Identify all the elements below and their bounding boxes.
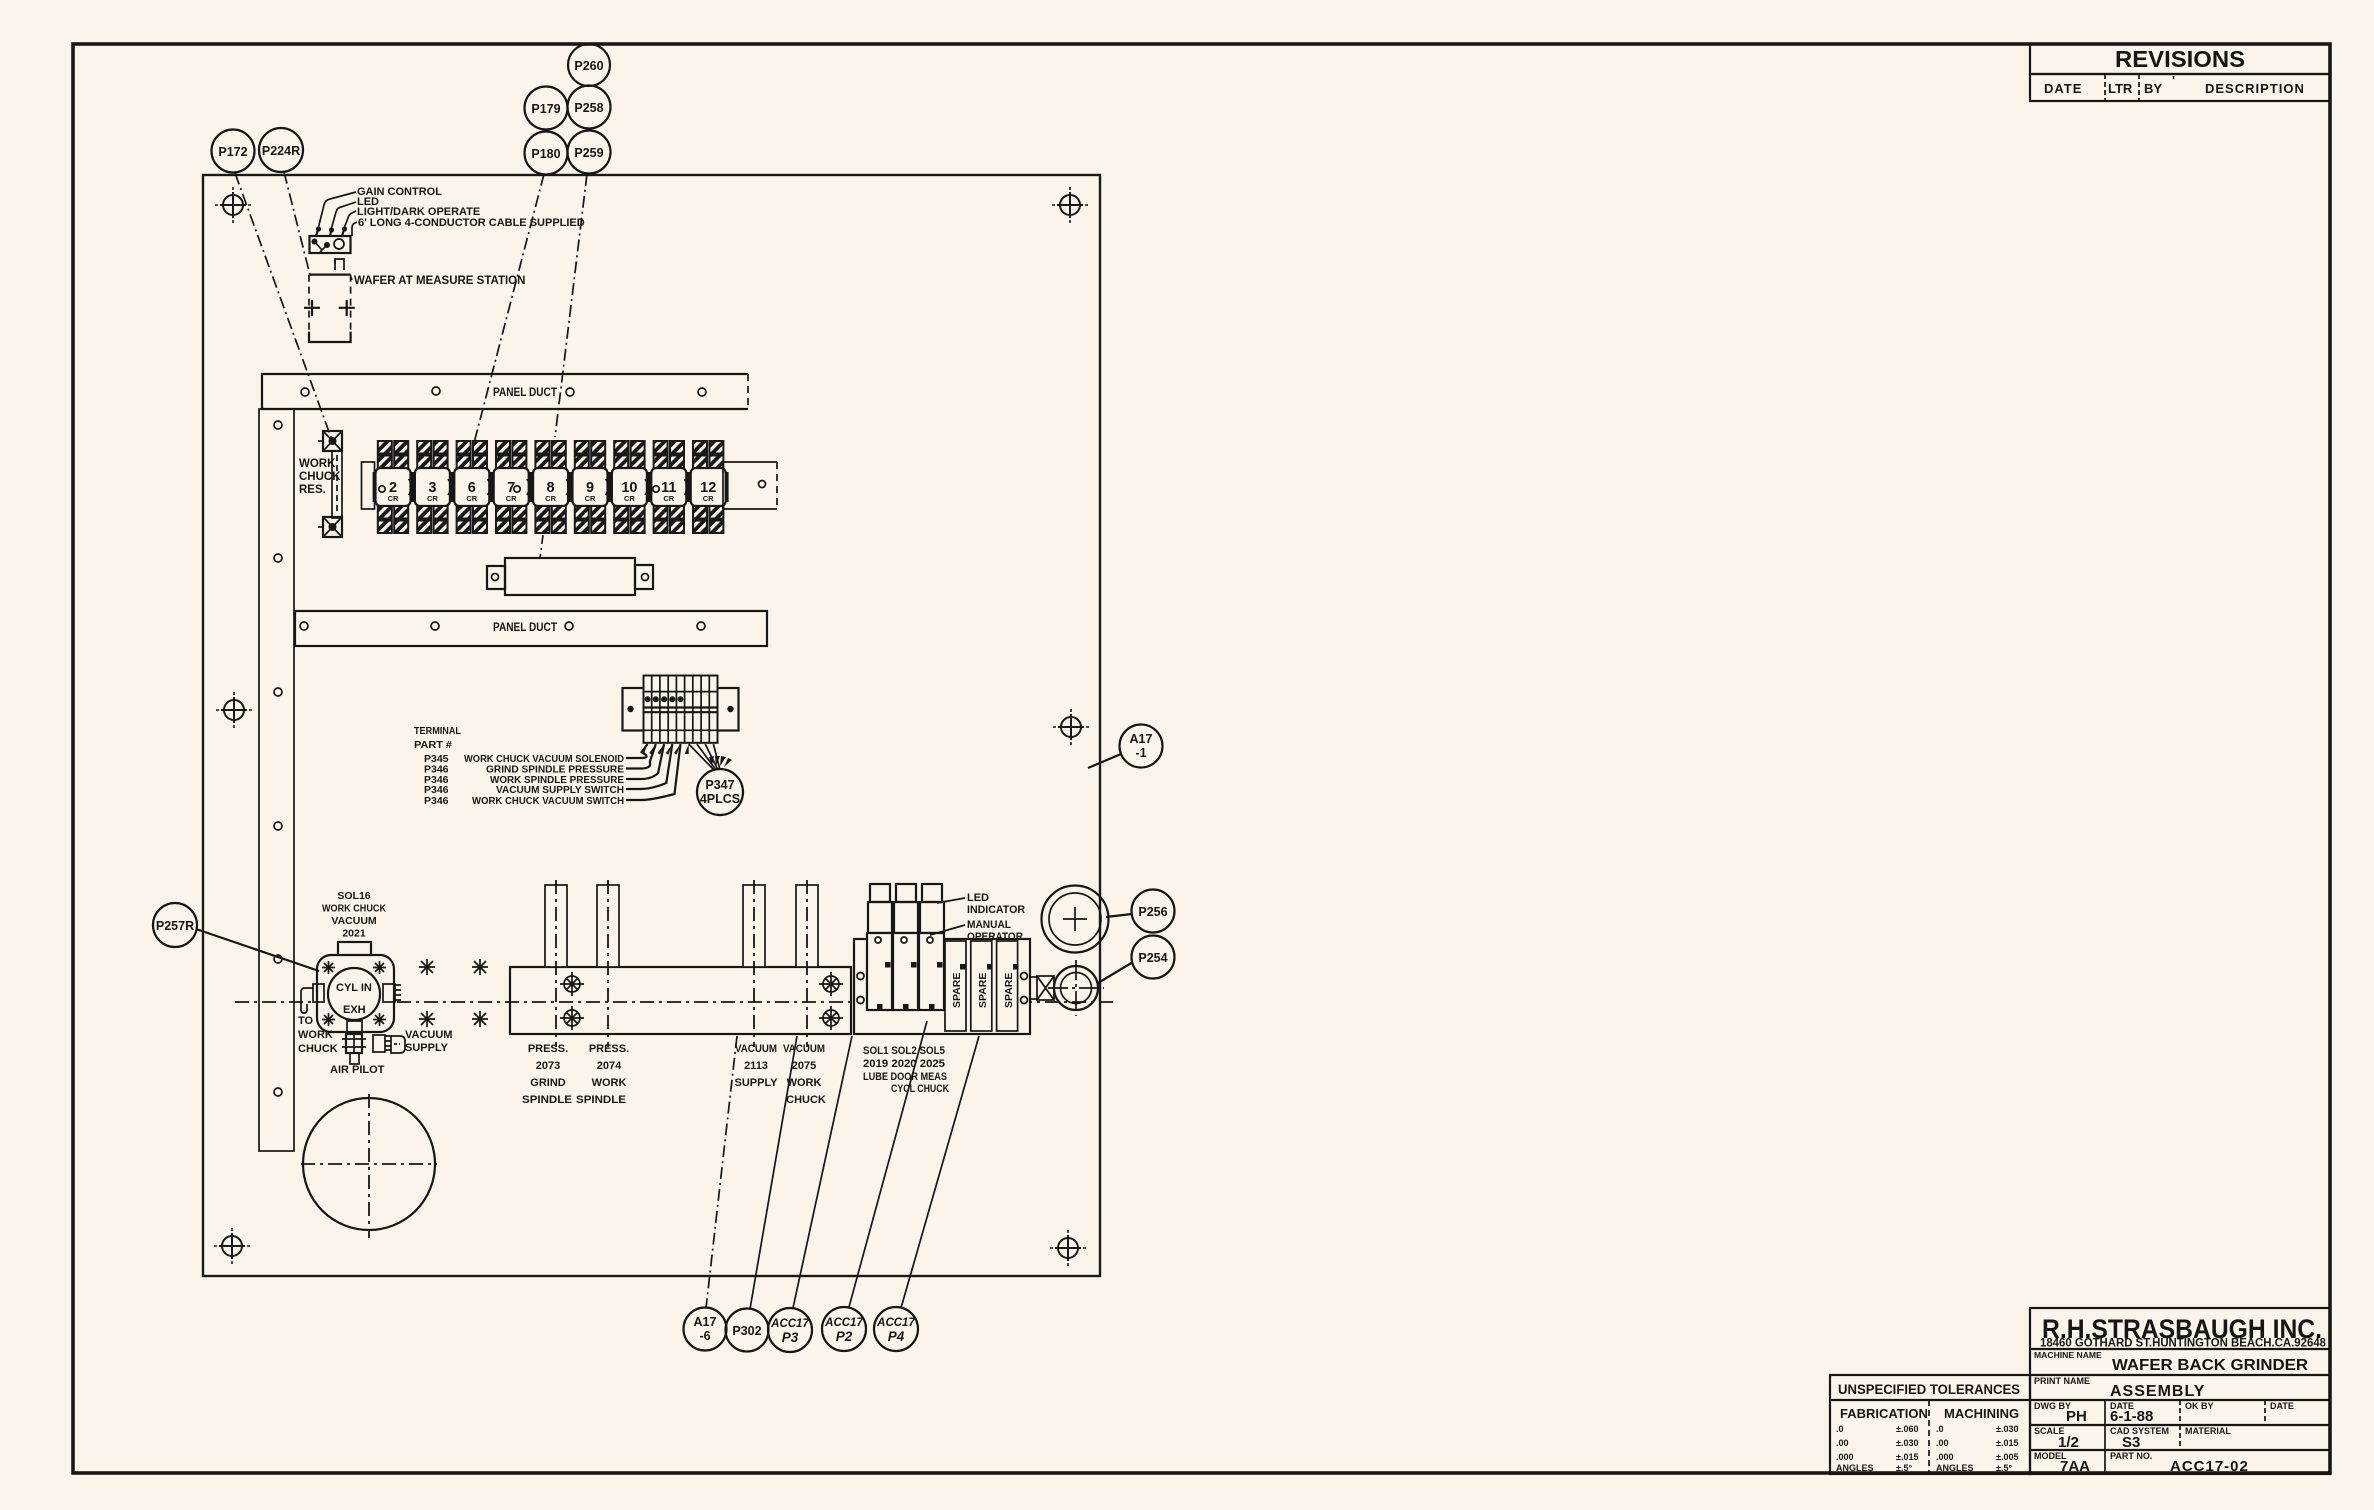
svg-text:SUPPLY: SUPPLY — [405, 1042, 449, 1054]
bus bar body — [505, 558, 635, 595]
wire terminal 4 — [626, 744, 672, 789]
vacuum tube work spindle — [597, 880, 619, 1047]
work chuck res. mounting bracket — [332, 451, 342, 518]
fiducial target bottom-right — [1050, 1230, 1086, 1266]
svg-text:.0: .0 — [1936, 1424, 1944, 1434]
label vacuum supply — [405, 1029, 452, 1054]
manifold screw right top — [819, 972, 843, 996]
svg-text:PRESS.: PRESS. — [589, 1043, 629, 1055]
svg-text:PANEL DUCT: PANEL DUCT — [493, 622, 557, 634]
wire to P347 balloon — [705, 744, 718, 770]
svg-text:ACC17: ACC17 — [876, 1317, 915, 1329]
svg-text:WORK: WORK — [298, 1029, 333, 1041]
bracket pad top — [318, 431, 342, 451]
svg-text:SPARE: SPARE — [951, 973, 963, 1008]
svg-text:OK BY: OK BY — [2185, 1401, 2214, 1411]
callout circle ACC17 P3 — [768, 1308, 812, 1352]
relay connector chevron — [685, 479, 693, 495]
svg-text:CHUCK: CHUCK — [786, 1094, 826, 1106]
svg-text:6-1-88: 6-1-88 — [2110, 1408, 2153, 1425]
svg-text:.000: .000 — [1836, 1452, 1854, 1462]
SOL16 air pilot fitting — [342, 1034, 366, 1064]
svg-text:VACUUM: VACUUM — [331, 915, 377, 927]
svg-text:±.030: ±.030 — [1996, 1424, 2018, 1434]
svg-text:MACHINING: MACHINING — [1944, 1406, 2019, 1421]
sensor body — [304, 275, 355, 342]
P254 mount target — [1048, 960, 1104, 1016]
svg-text:DATE: DATE — [2044, 81, 2082, 96]
sensor wire to led — [332, 202, 357, 228]
svg-text:ACC17-02: ACC17-02 — [2170, 1458, 2249, 1475]
revisions block — [2030, 44, 2330, 101]
fiducial target mid-right — [1053, 709, 1089, 745]
svg-text:P3: P3 — [782, 1330, 799, 1345]
SOL16 valve body — [317, 955, 394, 1032]
svg-text:P172: P172 — [218, 145, 247, 159]
svg-text:.000: .000 — [1936, 1452, 1954, 1462]
manifold screw left bottom — [560, 1006, 584, 1030]
svg-text:±.030: ±.030 — [1896, 1438, 1918, 1448]
svg-text:S3: S3 — [2122, 1434, 2140, 1451]
svg-text:2073: 2073 — [536, 1060, 560, 1072]
callout circle P172 — [212, 130, 255, 173]
svg-text:±.015: ±.015 — [1896, 1452, 1918, 1462]
cross marks near valve — [419, 959, 488, 1027]
label to work chuck — [298, 1015, 338, 1055]
svg-text:P257R: P257R — [156, 919, 194, 933]
svg-text:OPERATOR: OPERATOR — [967, 931, 1023, 943]
svg-text:CR: CR — [585, 494, 596, 503]
wire terminal 3 — [626, 744, 664, 779]
svg-text:2075: 2075 — [792, 1060, 816, 1072]
relay row right end bracket — [723, 462, 777, 509]
svg-text:ACC17: ACC17 — [770, 1318, 809, 1330]
fitting bolt between spare and P254 target — [1030, 976, 1054, 1000]
callout circle P254 — [1098, 936, 1175, 984]
P256 big ring — [1042, 886, 1109, 953]
svg-text:GRIND: GRIND — [530, 1077, 566, 1089]
callout circle P260 — [568, 44, 610, 86]
relay connector chevron — [566, 479, 574, 495]
svg-text:±.5°: ±.5° — [1896, 1463, 1912, 1473]
svg-text:P224R: P224R — [262, 144, 300, 158]
photo sensor connector body — [310, 236, 351, 253]
svg-text:ASSEMBLY: ASSEMBLY — [2110, 1383, 2205, 1400]
large panel hole bottom left — [301, 1094, 437, 1238]
svg-text:A17: A17 — [694, 1315, 717, 1329]
solenoid valve SOL5 — [919, 884, 944, 1010]
svg-text:MACHINE NAME: MACHINE NAME — [2034, 1350, 2102, 1360]
svg-text:PANEL DUCT: PANEL DUCT — [493, 387, 557, 399]
svg-text:ANGLES: ANGLES — [1836, 1463, 1874, 1473]
sensor connector pins — [316, 226, 347, 236]
fiducial target top-right — [1052, 187, 1088, 223]
svg-text:CHUCK: CHUCK — [299, 471, 341, 483]
SOL16 label — [322, 890, 386, 940]
relay connector chevron — [606, 479, 614, 495]
machine name row — [2030, 1374, 2330, 1376]
dwg by row — [2030, 1424, 2330, 1426]
relay 2 indicator hole — [379, 486, 385, 492]
vacuum tube work chuck — [796, 880, 818, 1047]
panel plate outline — [203, 175, 1100, 1276]
lower panel duct — [295, 611, 767, 646]
svg-text:CR: CR — [624, 494, 635, 503]
vertical panel duct — [259, 409, 294, 1151]
svg-text:CYCL CHUCK: CYCL CHUCK — [891, 1083, 949, 1095]
relay 9CR — [571, 441, 610, 533]
leader P259 to relay 8 and bus bar — [555, 174, 587, 437]
relay 11CR — [650, 441, 689, 533]
svg-text:PART NO.: PART NO. — [2110, 1451, 2152, 1461]
relay row left end bracket — [362, 462, 375, 509]
svg-text:': ' — [2172, 73, 2175, 88]
relay connector chevron — [645, 479, 653, 495]
svg-text:2113: 2113 — [744, 1060, 768, 1072]
svg-text:1/2: 1/2 — [2058, 1434, 2079, 1451]
manifold screw left top — [560, 972, 584, 996]
svg-text:P4: P4 — [888, 1329, 905, 1344]
SOL16 solenoid coil — [338, 942, 371, 963]
svg-text:WORK: WORK — [299, 458, 336, 470]
svg-text:SUPPLY: SUPPLY — [734, 1077, 778, 1089]
terminal strip — [644, 676, 718, 743]
svg-text:CR: CR — [663, 494, 674, 503]
svg-text:SPARE: SPARE — [1003, 973, 1015, 1008]
vacuum tube grind spindle — [545, 880, 567, 1047]
solenoid valve SOL2 — [893, 884, 918, 1010]
callout circle P180 — [525, 132, 568, 175]
svg-text:±.060: ±.060 — [1896, 1424, 1918, 1434]
svg-text:WORK: WORK — [787, 1077, 822, 1089]
svg-text:CR: CR — [427, 494, 438, 503]
svg-text:P302: P302 — [732, 1324, 761, 1338]
svg-text:PRINT NAME: PRINT NAME — [2034, 1376, 2090, 1386]
callout circle A17-1 — [1120, 725, 1163, 768]
fiducial target mid-left — [216, 692, 252, 728]
wire terminal 2 — [626, 744, 656, 769]
leader P172 to bracket pad — [235, 173, 332, 440]
svg-text:6' LONG 4-CONDUCTOR CABLE SUPP: 6' LONG 4-CONDUCTOR CABLE SUPPLIED — [358, 217, 585, 229]
bracket pad bottom — [318, 517, 342, 537]
SOL16 corner screws — [322, 961, 386, 1026]
svg-text:WORK CHUCK: WORK CHUCK — [322, 903, 386, 915]
svg-text:CR: CR — [466, 494, 477, 503]
leader A17-6 — [706, 1036, 737, 1308]
svg-text:SPINDLE: SPINDLE — [576, 1094, 626, 1106]
svg-text:EXH: EXH — [343, 1004, 366, 1016]
balloon P347 4PLCS — [697, 769, 743, 815]
svg-text:P347: P347 — [705, 778, 734, 792]
svg-text:2021: 2021 — [342, 928, 366, 940]
manifold screw right bottom — [819, 1006, 843, 1030]
svg-text:4PLCS: 4PLCS — [700, 792, 740, 806]
svg-text:P180: P180 — [531, 147, 560, 161]
wire to P347 balloon — [689, 744, 714, 770]
svg-text:P259: P259 — [574, 146, 603, 160]
sensor wire to cable note — [352, 222, 357, 236]
svg-text:PART #: PART # — [414, 739, 452, 751]
relay 3CR — [413, 441, 452, 533]
relay 12CR — [689, 441, 728, 533]
solenoid valve SOL1 — [867, 884, 892, 1010]
spare slot 2 — [971, 941, 993, 1031]
svg-text:CYL IN: CYL IN — [336, 982, 372, 994]
upper panel duct — [262, 374, 748, 409]
svg-text:UNSPECIFIED TOLERANCES: UNSPECIFIED TOLERANCES — [1838, 1382, 2020, 1397]
svg-text:CR: CR — [545, 494, 556, 503]
label led indicator — [937, 892, 1025, 916]
leader ACC17 P3 — [793, 1036, 852, 1308]
svg-text:DESCRIPTION: DESCRIPTION — [2205, 81, 2305, 96]
svg-text:WORK: WORK — [592, 1077, 627, 1089]
main horizontal centerline — [235, 1001, 1117, 1003]
solenoid bank back plate — [854, 939, 1030, 1034]
label SOL1 SOL2 SOL5 rows — [863, 1045, 949, 1095]
callout circle P256 — [1106, 890, 1175, 933]
label press 2073 grind spindle — [522, 1043, 572, 1106]
label manual operator — [930, 919, 1023, 943]
callout circle A17-6 — [684, 1308, 727, 1351]
svg-text:VACUUM: VACUUM — [783, 1043, 825, 1055]
svg-text:-1: -1 — [1135, 746, 1146, 760]
svg-text:P254: P254 — [1138, 951, 1167, 965]
svg-text:P179: P179 — [531, 102, 560, 116]
svg-text:18460 GOTHARD ST.HUNTINGTON BE: 18460 GOTHARD ST.HUNTINGTON BEACH.CA.926… — [2040, 1336, 2326, 1350]
svg-text:CR: CR — [388, 494, 399, 503]
svg-text:2074: 2074 — [597, 1060, 622, 1072]
svg-text:TO: TO — [298, 1015, 314, 1027]
SOL16 bottom port — [347, 1021, 362, 1034]
wire to P347 balloon — [713, 744, 720, 770]
svg-text:PH: PH — [2066, 1408, 2087, 1425]
svg-text:MATERIAL: MATERIAL — [2185, 1426, 2231, 1436]
svg-text:WORK CHUCK VACUUM SWITCH: WORK CHUCK VACUUM SWITCH — [472, 795, 624, 807]
svg-text:PRESS.: PRESS. — [528, 1043, 568, 1055]
svg-text:AIR PILOT: AIR PILOT — [330, 1064, 385, 1076]
scale row — [2030, 1449, 2330, 1451]
svg-text:BY: BY — [2144, 81, 2162, 96]
callout circle ACC17 P2 — [822, 1307, 866, 1351]
svg-text:LUBE DOOR MEAS: LUBE DOOR MEAS — [863, 1071, 947, 1083]
callout circle P224R — [259, 128, 303, 172]
bus bar right tab — [635, 565, 653, 589]
callout circle P259 — [568, 131, 611, 174]
callout circle P258 — [568, 86, 611, 129]
svg-text:CR: CR — [703, 494, 714, 503]
spare slot 3 — [997, 941, 1019, 1031]
relay 8CR — [531, 441, 570, 533]
relay 10CR — [610, 441, 649, 533]
svg-text:CR: CR — [506, 494, 517, 503]
svg-text:-6: -6 — [699, 1329, 710, 1343]
svg-text:SOL16: SOL16 — [337, 890, 370, 902]
svg-text:WAFER AT MEASURE STATION: WAFER AT MEASURE STATION — [354, 275, 525, 287]
relay 6CR — [453, 441, 492, 533]
print name row — [2030, 1399, 2330, 1401]
svg-text:FABRICATION: FABRICATION — [1840, 1406, 1928, 1421]
svg-text:CHUCK: CHUCK — [298, 1043, 338, 1055]
svg-text:.0: .0 — [1836, 1424, 1844, 1434]
leader A17-1 to panel edge — [1088, 754, 1121, 768]
terminal part list rows — [424, 753, 624, 807]
svg-text:7AA: 7AA — [2060, 1458, 2090, 1475]
leader P224R to sensor — [284, 172, 310, 275]
svg-text:P256: P256 — [1138, 905, 1167, 919]
svg-text:ACC17: ACC17 — [824, 1317, 863, 1329]
fiducial target top-left — [215, 187, 251, 223]
SOL16 left port fitting — [301, 984, 324, 1013]
svg-text:A17: A17 — [1130, 732, 1153, 746]
callout circle ACC17 P4 — [874, 1307, 918, 1351]
svg-text:P2: P2 — [836, 1329, 853, 1344]
svg-text:LTR: LTR — [2108, 81, 2133, 96]
svg-text:2019 2020 2025: 2019 2020 2025 — [863, 1058, 945, 1070]
model row — [2104, 1450, 2106, 1474]
svg-text:VACUUM: VACUUM — [405, 1029, 452, 1041]
svg-text:REVISIONS: REVISIONS — [2115, 46, 2245, 72]
leader ACC17 P2 — [849, 1021, 927, 1307]
svg-text:INDICATOR: INDICATOR — [967, 904, 1025, 916]
callout circle P302 — [726, 1309, 769, 1352]
callout circle P257R — [153, 903, 197, 947]
leader P180 to relay 6 — [474, 174, 544, 443]
unspecified tolerances block — [1830, 1375, 2030, 1474]
label vacuum 2075 work chuck — [783, 1043, 826, 1106]
spare slot 1 — [945, 941, 966, 1031]
relay 2CR — [374, 441, 413, 533]
callout circle P179 — [525, 87, 568, 130]
svg-text:P258: P258 — [574, 101, 603, 115]
svg-text:WAFER BACK GRINDER: WAFER BACK GRINDER — [2112, 1357, 2308, 1374]
label press 2074 work spindle — [576, 1043, 629, 1106]
svg-text:±.5°: ±.5° — [1996, 1463, 2012, 1473]
svg-text:DATE: DATE — [2270, 1401, 2294, 1411]
vacuum tube supply — [743, 880, 765, 1047]
wire terminal 1 — [626, 744, 648, 758]
svg-text:±.005: ±.005 — [1996, 1452, 2018, 1462]
relay connector chevron — [488, 479, 496, 495]
svg-text:VACUUM: VACUUM — [735, 1043, 777, 1055]
svg-text:P260: P260 — [574, 59, 603, 73]
svg-text:RES.: RES. — [299, 484, 326, 496]
relay connector chevron — [409, 479, 417, 495]
SOL16 inner circle — [328, 968, 380, 1020]
svg-text:ANGLES: ANGLES — [1936, 1463, 1974, 1473]
relay 7 indicator hole — [514, 486, 520, 492]
bus bar left tab — [487, 566, 505, 589]
terminal block back plate — [623, 688, 739, 731]
relay 7CR — [492, 441, 531, 533]
svg-text:.00: .00 — [1936, 1438, 1949, 1448]
svg-text:SPINDLE: SPINDLE — [522, 1094, 572, 1106]
manifold block — [510, 967, 851, 1034]
svg-text:SOL1 SOL2 SOL5: SOL1 SOL2 SOL5 — [863, 1045, 945, 1057]
svg-text:TERMINAL: TERMINAL — [414, 725, 462, 737]
svg-text:SPARE: SPARE — [977, 973, 989, 1008]
arrowheads at P347 balloon — [709, 756, 714, 767]
SOL16 right port fitting — [383, 984, 401, 1002]
svg-text:P346: P346 — [424, 795, 449, 807]
sensor wire to gain control — [319, 192, 357, 227]
label vacuum 2113 supply — [734, 1043, 778, 1089]
terminal part list heading — [414, 725, 462, 751]
leader P302 — [750, 1036, 797, 1309]
title block company — [2030, 1308, 2330, 1475]
wire terminal 5 — [626, 744, 681, 800]
sensor neck — [335, 259, 344, 270]
SOL16 vacuum supply elbow — [373, 1035, 405, 1053]
relay 11 indicator hole — [653, 486, 659, 492]
relay connector chevron — [448, 479, 456, 495]
sensor wire to light/dark — [345, 211, 357, 227]
svg-text:.00: .00 — [1836, 1438, 1849, 1448]
work chuck res label — [299, 458, 341, 496]
svg-text:MANUAL: MANUAL — [967, 919, 1011, 931]
wire to P347 balloon — [697, 744, 716, 770]
svg-text:±.015: ±.015 — [1996, 1438, 2018, 1448]
leader P257R to SOL16 — [196, 929, 319, 971]
leader ACC17 P4 — [901, 1036, 979, 1308]
svg-text:LED: LED — [967, 892, 989, 904]
relay connector chevron — [527, 479, 535, 495]
fiducial target bottom-left — [214, 1228, 250, 1264]
